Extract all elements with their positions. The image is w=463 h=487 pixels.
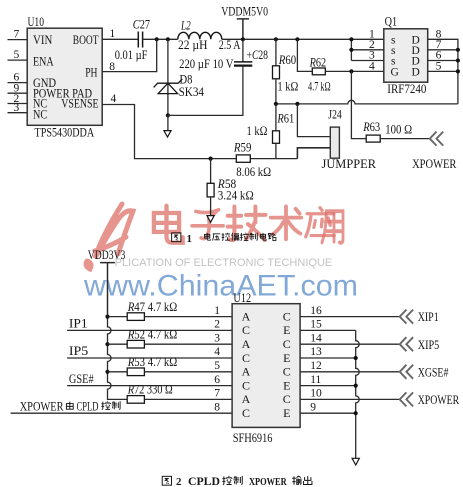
watermark hanzi YING (red) [306,208,335,237]
svg-text:8.06 kΩ: 8.06 kΩ [236,165,271,179]
ground symbol below R58 [207,216,214,223]
IC U10 TPS5430DDA body [27,28,102,125]
wire C28 bottom to D8 junction [168,66,243,116]
svg-text:XPOWER: XPOWER [249,476,288,487]
svg-text:VIN: VIN [33,33,52,47]
svg-text:ENA: ENA [33,55,54,69]
connector J24 body [330,127,339,158]
power flag VDDM5V0 [221,4,268,39]
svg-text:2.5 A: 2.5 A [219,38,241,52]
svg-text:5: 5 [436,61,442,73]
U10 pin 5 stub wire [8,59,28,61]
svg-text:PH: PH [85,65,97,79]
wire rail to R60 [275,39,277,66]
svg-text:2: 2 [176,476,182,487]
port chevron XPOWER (fig1) [430,132,443,146]
IC U12 SFH6916 body [232,304,300,428]
svg-text:TPS5430DDA: TPS5430DDA [35,126,95,140]
figure 1 caption: TU 1 DIAN-YA-LA-PIAN-KONG-ZHI-DIAN-LU [172,233,276,245]
wire J24 pin1 drop [297,104,330,137]
svg-text:XIP5: XIP5 [418,338,440,352]
svg-text:8: 8 [109,61,115,73]
wire L2 to Q1 pin1 (main 5V rail) [222,38,384,40]
svg-text:3.24 kΩ: 3.24 kΩ [218,188,254,202]
svg-text:+C28: +C28 [247,48,269,62]
port chevron XGSE# [400,365,413,379]
svg-text:10: 10 [310,388,322,400]
svg-text:6: 6 [214,374,220,386]
svg-text:7: 7 [214,388,220,400]
wire R58 tap down [210,159,212,184]
node junction gate [349,69,353,73]
capacitor C27 [138,32,142,48]
wire rail to C28 top [242,39,244,61]
wire R47 to U12 pin1 [144,316,232,318]
node junction VDDM5V0/C28 [241,37,245,41]
svg-text:IRF7240: IRF7240 [387,82,426,96]
wire PH riser [102,39,157,71]
svg-text:3: 3 [214,332,220,344]
svg-text:22 µH: 22 µH [178,38,207,52]
svg-text:1: 1 [187,233,193,245]
svg-text:C: C [283,309,291,323]
wire IP5 to U12 pin4 [67,357,232,359]
svg-text:R59: R59 [233,141,251,155]
svg-text:VSENSE: VSENSE [61,97,98,111]
node junction emitter pin11 [354,384,358,388]
wire R58 bottom to ground [210,197,212,216]
svg-text:D: D [412,66,420,78]
svg-text:XPOWER: XPOWER [20,399,64,413]
resistor R60 [273,66,280,79]
svg-text:PLICATION OF ELECTRONIC TECHNI: PLICATION OF ELECTRONIC TECHNIQUE [115,257,333,269]
svg-text:VDD3V3: VDD3V3 [88,248,126,262]
node junction source pin2 [349,48,353,52]
wire C27 to L2 [143,38,178,40]
svg-text:R47 4.7 kΩ: R47 4.7 kΩ [127,300,177,314]
wire VDD3V3 bus vertical with hops [108,317,128,400]
node junction drain pin5 [456,69,460,73]
port chevron XPOWER (fig2) [400,392,413,406]
svg-text:R72 330 Ω: R72 330 Ω [127,383,173,397]
wire VDD to R47 [108,316,128,318]
svg-text:4: 4 [214,346,220,358]
svg-text:CPLD: CPLD [77,399,99,413]
resistor R59 [236,155,250,162]
svg-text:E: E [283,406,290,420]
svg-text:R53 4.7 kΩ: R53 4.7 kΩ [127,355,177,369]
svg-text:G: G [391,66,399,78]
svg-text:C: C [242,406,250,420]
watermark hanzi YONG (red) [322,211,343,243]
wire Q1 pin6 drain [428,60,458,62]
wire rail down to R62 [297,39,312,71]
wire gate column down to R63 [351,71,366,138]
U10 pin 9 stub wire [8,92,28,94]
wire Q1 pin3 [351,60,383,62]
svg-text:www.ChinaAET.com: www.ChinaAET.com [83,270,358,303]
svg-text:C27: C27 [133,17,150,31]
wire emitter bus vertical with hops [356,330,360,458]
svg-text:5: 5 [14,49,20,61]
svg-text:XGSE#: XGSE# [418,365,449,379]
wire U12 pin9 to emitter bus [300,412,356,414]
svg-text:R60: R60 [278,53,296,67]
watermark red flourish [86,204,133,269]
svg-text:JUMPPER: JUMPPER [322,157,377,171]
svg-text:2: 2 [214,319,220,331]
node junction C27/PH riser [155,37,159,41]
resistor R62 [312,68,325,75]
svg-text:E: E [283,323,290,337]
svg-text:7: 7 [14,29,20,41]
diode D8 SK34 (schottky) [154,79,183,94]
wire U12 pin12 to XGSE# port [300,371,401,373]
svg-text:C: C [242,351,250,365]
wire U12 pin11 to emitter bus [300,385,356,387]
svg-text:13: 13 [310,346,322,358]
wire R62 to Q1 gate [325,70,384,72]
wire VDD to R53 [108,371,128,373]
wire drain node to R60/R61 column [276,103,298,105]
U10 pin 2 stub wire [8,103,28,105]
node junction D8 branch [166,37,170,41]
wire drain bus to R61 node with hop over gate line [297,100,458,104]
inductor L2 [178,32,222,39]
wire Q1 pin2 [351,49,383,51]
watermark hanzi ZI (red) [192,210,223,239]
svg-text:NC: NC [33,108,47,122]
wire U12 pin14 to XIP5 port [300,343,401,345]
resistor R63 [366,135,380,142]
wire U10 pin1 BOOT to C27 [102,38,138,40]
svg-text:16: 16 [310,305,322,317]
svg-text:XIP1: XIP1 [418,310,439,324]
svg-text:8: 8 [214,401,220,413]
svg-text:IP1: IP1 [69,317,88,331]
svg-text:4.7 kΩ: 4.7 kΩ [308,80,331,94]
wire IP1 to U12 pin2 [67,329,232,331]
watermark hanzi SHU (red) [271,206,301,239]
node junction R62 branch top [295,37,299,41]
svg-text:14: 14 [310,332,322,344]
svg-text:A: A [242,309,251,323]
wire R53 to U12 pin5 [144,371,232,373]
svg-text:C: C [242,378,250,392]
wire U12 pin16 to XIP1 port [300,316,401,318]
svg-text:9: 9 [310,401,316,413]
svg-text:6: 6 [14,71,20,83]
svg-text:C: C [283,337,291,351]
svg-text:E: E [283,378,290,392]
ground symbol below emitter bus [352,458,359,465]
wire to R61 [275,104,277,131]
wire J24 pin2 to feedback net [297,148,330,159]
svg-text:Q1: Q1 [385,15,398,29]
wire R52 to U12 pin3 [144,343,232,345]
svg-text:100 Ω: 100 Ω [385,122,412,136]
capacitor C28 (polarized) [234,62,252,66]
svg-text:A: A [242,392,251,406]
svg-text:11: 11 [310,374,321,386]
port chevron XIP1 [400,310,413,324]
wire D8 branch vertical [167,39,169,115]
svg-text:U12: U12 [233,291,251,305]
svg-text:J24: J24 [328,107,342,121]
svg-text:12: 12 [310,360,322,372]
U10 pin 7 stub wire [8,39,28,41]
node junction R60 bottom / R61 top [274,102,278,106]
svg-text:XPOWER: XPOWER [418,393,460,407]
resistor R52 [127,340,144,348]
U10 pin 3 stub wire [8,112,28,114]
node junction J24 drop [295,102,299,106]
port chevron XIP5 [400,337,413,351]
node junction R58 tap [209,157,213,161]
wire D8 junction to ground [167,115,169,130]
svg-text:R63: R63 [362,120,380,134]
svg-text:3: 3 [14,102,20,114]
svg-text:C: C [283,392,291,406]
svg-text:C: C [283,365,291,379]
svg-text:4: 4 [369,61,375,73]
wire VDD to R52 [108,343,128,345]
wire R61 bottom to feedback net [275,143,277,158]
transistor Q1 IRF7240 body [384,29,428,82]
svg-text:IP5: IP5 [69,344,88,358]
node junction source pin1 [349,37,353,41]
ground symbol below D8 [164,131,171,137]
watermark hanzi DIAN (red) [154,206,183,243]
svg-text:L2: L2 [180,19,190,33]
node junction D8 ground / C28 return [166,113,170,117]
wire GSE# to U12 pin6 [67,385,232,387]
resistor R72 [127,396,144,404]
net label XPOWER-you-CPLD-kongzhi [20,399,120,413]
wire U12 pin13 to emitter bus [300,357,356,359]
wire Q1 pin8 drain [428,39,458,104]
node junction drain pin6 [456,58,460,62]
resistor R58 [207,183,214,197]
svg-text:R61: R61 [277,111,295,125]
node junction VDD to R47 [105,315,109,319]
svg-text:15: 15 [310,319,322,331]
svg-text:U10: U10 [28,15,45,29]
svg-text:1 kΩ: 1 kΩ [277,80,298,94]
power flag VDD3V3 [88,248,126,316]
wire feedback net horizontal (VSENSE) [102,105,297,159]
node junction VDD to R52 [105,342,109,346]
svg-text:220 µF 10 V: 220 µF 10 V [179,57,233,71]
U10 pin 6 stub wire [8,82,28,84]
watermark hanzi JI (red) [228,207,266,241]
wire R63 to XPOWER port [380,138,430,140]
wire Q1 pin5 drain [428,70,458,72]
svg-text:1 kΩ: 1 kΩ [247,124,268,138]
svg-text:CPLD: CPLD [188,474,220,487]
node junction emitter pin9 [354,411,358,415]
node junction drain pin7 [456,48,460,52]
node junction R60 top [274,37,278,41]
svg-text:C: C [242,323,250,337]
wire U12 pin15 to emitter bus [300,329,356,331]
svg-text:XPOWER: XPOWER [412,157,457,171]
wire source bus vertical [350,39,352,60]
svg-text:A: A [242,365,251,379]
svg-text:5: 5 [214,360,220,372]
resistor R47 [127,313,144,321]
node junction emitter pin13 [354,356,358,360]
svg-text:A: A [242,337,251,351]
wire XPOWER net to U12 pin8 [11,412,233,414]
svg-text:BOOT: BOOT [73,33,99,47]
svg-text:4: 4 [111,93,117,105]
svg-text:1: 1 [110,28,116,40]
svg-text:R62: R62 [309,56,326,70]
wire Q1 pin7 drain [428,49,458,51]
svg-text:GSE#: GSE# [69,372,94,386]
svg-text:1: 1 [214,305,220,317]
svg-text:SFH6916: SFH6916 [233,431,273,445]
node junction VDD to R53 [105,370,109,374]
svg-text:SK34: SK34 [179,85,205,99]
resistor R61 [273,131,280,144]
svg-text:R52 4.7 kΩ: R52 4.7 kΩ [127,328,177,342]
svg-text:0.01 µF: 0.01 µF [115,48,148,62]
wire R60 bottom to drain net [275,79,277,104]
wire U12 pin10 to XPOWER port [300,398,401,400]
figure 2 caption: TU 2 CPLD KONG-ZHI XPOWER SHU-CHU [162,474,312,487]
resistor R53 [127,368,144,376]
svg-text:E: E [283,351,290,365]
wire R72 to U12 pin7 [144,398,232,400]
svg-text:VDDM5V0: VDDM5V0 [221,4,268,18]
